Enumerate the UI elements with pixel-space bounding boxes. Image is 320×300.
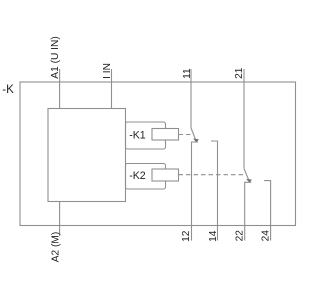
svg-text:12: 12 <box>181 230 192 242</box>
terminal 21 lead <box>243 69 245 168</box>
svg-text:-K2: -K2 <box>129 170 146 182</box>
coil block K1 tab <box>126 122 166 149</box>
svg-text:-K1: -K1 <box>129 130 146 142</box>
terminal 12 lead <box>192 142 199 241</box>
terminal 22 lead <box>245 182 252 240</box>
svg-text:A2 (M): A2 (M) <box>51 232 62 263</box>
terminal 11 lead <box>190 69 192 128</box>
terminal A2 lead <box>59 202 61 237</box>
svg-text:21: 21 <box>234 67 245 79</box>
svg-text:14: 14 <box>208 230 219 242</box>
contact K2 lever <box>244 168 249 181</box>
svg-text:11: 11 <box>182 68 193 79</box>
svg-text:A1 (U IN): A1 (U IN) <box>50 36 61 78</box>
coil K2 <box>152 169 179 181</box>
terminal 24 lead <box>264 181 271 241</box>
coil block K2 tab <box>126 164 166 190</box>
terminal A1 lead <box>59 69 61 109</box>
contact K1 arrowhead <box>193 139 199 143</box>
svg-text:I IN: I IN <box>102 63 113 79</box>
terminal I IN lead <box>111 69 113 109</box>
svg-text:24: 24 <box>261 230 272 242</box>
dashed actuation link K1 <box>179 134 193 136</box>
coil K1 <box>152 129 179 141</box>
svg-text:-K: -K <box>2 83 14 96</box>
svg-text:22: 22 <box>235 230 246 242</box>
dashed actuation link K2 <box>179 174 246 176</box>
device body <box>48 109 126 202</box>
terminal 14 lead <box>211 141 218 241</box>
relay enclosure -K outer boundary <box>20 82 296 226</box>
contact K2 arrowhead <box>246 179 252 183</box>
contact K1 lever <box>191 128 196 141</box>
